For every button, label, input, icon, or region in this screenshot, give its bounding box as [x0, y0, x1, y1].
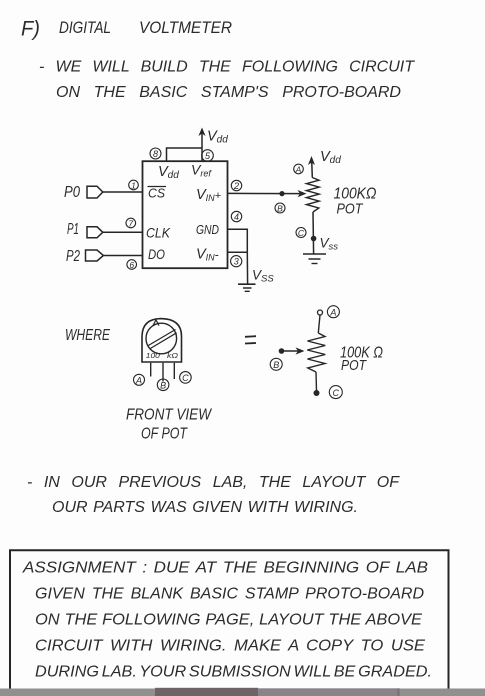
svg-text:DIGITAL: DIGITAL	[59, 18, 111, 37]
svg-text:4: 4	[234, 212, 239, 222]
svg-text:3: 3	[234, 257, 239, 267]
svg-text:C: C	[333, 388, 340, 398]
pin number 8	[150, 148, 161, 159]
pin number 1	[129, 180, 139, 190]
assignment text	[22, 560, 432, 681]
svg-text:1: 1	[131, 180, 136, 190]
potentiometer R1 100K zigzag (circuit)	[306, 178, 319, 213]
svg-text:DO: DO	[148, 247, 165, 262]
svg-text:Vref: Vref	[191, 162, 212, 179]
svg-text:- IN OUR PREVIOUS LAB, THE LAY: - IN OUR PREVIOUS LAB, THE LAYOUT OF	[27, 474, 400, 491]
ground symbol (chip)	[238, 284, 256, 291]
pot screwdriver slot	[148, 330, 177, 350]
value label 100K ohm POT (circuit pot)	[334, 186, 377, 218]
svg-text:P1: P1	[67, 221, 79, 238]
pin label VIN+ (inside chip, right)	[196, 187, 222, 203]
node label B (circuit pot)	[275, 203, 285, 213]
svg-text:A: A	[135, 375, 142, 385]
svg-text:8: 8	[153, 149, 158, 159]
pin number 3	[231, 256, 242, 267]
svg-text:- WE WILL BUILD THE FOLLOWING: - WE WILL BUILD THE FOLLOWING CIRCUIT	[39, 59, 415, 76]
value label 100K ohm POT (symbol)	[340, 345, 383, 375]
terminal label A (front view)	[134, 374, 145, 385]
pin label VIN- (inside chip, right)	[196, 247, 219, 263]
pin number 6	[127, 260, 137, 270]
connector P2	[86, 250, 104, 261]
pin number 4	[231, 211, 241, 222]
terminal label C (front view)	[180, 372, 192, 384]
wire P1 to CLK pin7	[103, 231, 143, 233]
svg-text:Vdd: Vdd	[320, 149, 341, 166]
svg-text:C: C	[182, 373, 189, 383]
wire P0 to CS pin1	[103, 191, 143, 193]
svg-text:P0: P0	[64, 184, 80, 201]
pin label Vdd (inside chip, top-left)	[158, 164, 179, 181]
svg-text:DURING LAB. YOUR SUBMISSION: DURING LAB. YOUR SUBMISSION WILL BE GRAD…	[35, 664, 432, 681]
wire down to ground (chip)	[246, 252, 248, 283]
ground symbol (right pot)	[303, 254, 326, 264]
svg-text:GND: GND	[196, 222, 219, 237]
pin label DO (inside chip, left)	[148, 247, 165, 262]
svg-text:2: 2	[233, 181, 239, 191]
scanner shadow bar bottom	[0, 688, 485, 696]
svg-text:ON THE BASIC STAMP'S PROTO-BOA: ON THE BASIC STAMP'S PROTO-BOARD	[56, 84, 401, 101]
pin label GND (inside chip, right)	[196, 222, 219, 237]
node label A (circuit pot)	[294, 164, 304, 174]
svg-text:Vdd: Vdd	[158, 164, 179, 181]
bullet line 1	[39, 59, 415, 102]
port P2 label	[66, 248, 80, 265]
assignment box frame	[10, 550, 449, 688]
where label	[65, 327, 111, 344]
terminal label B (front view)	[157, 379, 169, 391]
pot zigzag (symbol)	[307, 333, 325, 372]
IC U1 ADC chip body	[143, 161, 228, 268]
junction dot Vss node	[311, 236, 317, 242]
svg-text:C: C	[298, 228, 305, 238]
heading F) DIGITAL VOLTMETER	[21, 18, 232, 41]
svg-text:B: B	[160, 380, 166, 390]
pin label CS-bar (inside chip, left)	[148, 186, 167, 201]
svg-text:kΩ: kΩ	[167, 351, 178, 360]
wire pot bottom to Vss	[312, 212, 315, 254]
junction dot node B	[279, 191, 284, 196]
pin number 2	[231, 180, 241, 191]
wire pin8 to Vdd net	[167, 148, 203, 161]
pot front view body	[142, 319, 182, 362]
bullet line 2	[27, 474, 400, 516]
svg-text:CS: CS	[148, 186, 165, 201]
node label B (symbol)	[270, 358, 282, 370]
wire VIN+ pin2 to pot wiper with arrowhead	[228, 190, 307, 197]
wire GND pin4 right and down	[228, 229, 248, 252]
port P0 label	[64, 184, 80, 201]
svg-text:VIN-: VIN-	[196, 247, 219, 263]
svg-text:POT: POT	[337, 201, 365, 218]
svg-text:Vss: Vss	[320, 236, 339, 253]
connector P0	[87, 186, 103, 198]
svg-text:Vdd: Vdd	[207, 129, 228, 146]
pot leg B	[162, 363, 164, 382]
svg-text:7: 7	[128, 218, 133, 228]
svg-text:P2: P2	[66, 248, 80, 265]
svg-text:A: A	[295, 164, 302, 174]
pot leg A	[150, 363, 152, 377]
wire terminal A to zigzag	[318, 315, 320, 333]
pot front view adjustment screw circle	[146, 323, 177, 354]
caption front view of pot	[126, 407, 212, 443]
terminal C filled dot	[314, 390, 320, 396]
svg-text:ASSIGNMENT : DUE AT THE BE: ASSIGNMENT : DUE AT THE BEGINNING OF LAB	[22, 560, 428, 577]
net label VSS (chip ground)	[252, 268, 274, 285]
port P1 label	[67, 221, 79, 238]
svg-text:5: 5	[205, 151, 211, 161]
node label C (symbol)	[329, 386, 342, 399]
pin label Vref (inside chip, top-right)	[191, 162, 212, 179]
svg-text:F): F)	[21, 18, 40, 41]
connector P1	[87, 227, 103, 238]
svg-text:B: B	[273, 360, 279, 370]
svg-text:POT: POT	[341, 358, 367, 374]
net Vdd arrow above pot	[308, 149, 341, 178]
equals sign	[245, 336, 256, 343]
svg-text:FRONT VIEW: FRONT VIEW	[126, 407, 212, 424]
svg-text:B: B	[277, 203, 283, 213]
net label Vss (right pot)	[320, 236, 339, 253]
wiper arrow (symbol)	[279, 347, 305, 354]
svg-text:GIVEN THE BLANK BASIC STAMP PR: GIVEN THE BLANK BASIC STAMP PROTO-BOARD	[35, 586, 424, 603]
node label C (circuit pot)	[296, 228, 306, 238]
equivalent pot symbol: terminal A open dot	[318, 310, 323, 315]
svg-text:VOLTMETER: VOLTMETER	[139, 18, 232, 37]
pot front view value 100 kohm	[146, 351, 179, 360]
wire P2 to DO pin6	[103, 255, 142, 257]
pin number 5	[202, 150, 214, 162]
svg-text:CLK: CLK	[146, 226, 171, 241]
pot indicator notch	[153, 320, 160, 327]
svg-text:VSS: VSS	[252, 268, 274, 285]
svg-text:CIRCUIT WITH WIRING. MAKE A: CIRCUIT WITH WIRING. MAKE A COPY TO USE	[35, 638, 425, 655]
svg-text:A: A	[329, 307, 336, 317]
node label A (symbol)	[327, 306, 339, 318]
svg-text:WHERE: WHERE	[65, 327, 111, 344]
svg-text:100: 100	[146, 351, 161, 360]
svg-text:OUR PARTS WAS GIVEN WITH WIRIN: OUR PARTS WAS GIVEN WITH WIRING.	[52, 499, 358, 516]
wire VIN- pin3 to GND wire	[228, 251, 248, 253]
pot leg C	[173, 363, 175, 379]
svg-text:OF POT: OF POT	[141, 426, 188, 443]
pin label CLK (inside chip, left)	[146, 226, 171, 241]
net Vdd arrow above chip	[198, 128, 228, 162]
svg-text:6: 6	[129, 260, 134, 270]
wire zigzag to terminal C	[315, 372, 318, 391]
svg-text:ON THE FOLLOWING PAGE, LAYOU: ON THE FOLLOWING PAGE, LAYOUT THE ABOVE	[35, 612, 422, 629]
pin number 7	[126, 218, 136, 228]
svg-text:VIN+: VIN+	[196, 187, 222, 203]
